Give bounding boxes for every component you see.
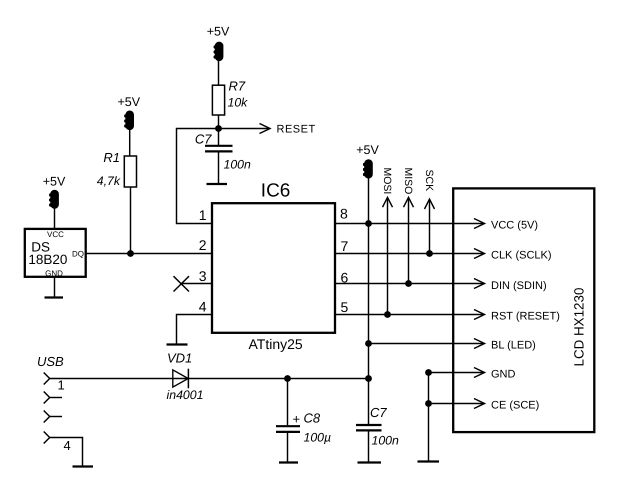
wire GND row (to LCD) (429, 368, 485, 378)
wire pin 4 to ground (177, 315, 214, 345)
svg-text:C8: C8 (304, 411, 321, 426)
wire CLK row (pin 7 to LCD) (335, 249, 485, 259)
diode VD1 (173, 369, 189, 389)
ground (C7 rail) (358, 461, 382, 463)
wire C8 to ground (287, 433, 289, 463)
ground (C8) (279, 461, 298, 463)
svg-text:3: 3 (199, 268, 207, 284)
ground (IC6 pin 4) (167, 343, 188, 345)
resistor R7 (212, 85, 224, 115)
svg-text:8: 8 (340, 206, 348, 222)
junction DQ / R1 (127, 250, 134, 257)
svg-text:+5V: +5V (118, 95, 141, 109)
IC IC6 box (212, 181, 335, 352)
wire R7 to RESET node (218, 115, 220, 145)
svg-text:7: 7 (341, 238, 349, 254)
svg-text:RESET: RESET (277, 124, 316, 136)
svg-text:R1: R1 (103, 150, 120, 165)
power +5V symbol (R7 supply) (207, 25, 230, 62)
svg-text:C7: C7 (370, 405, 387, 420)
svg-text:USB: USB (37, 354, 64, 369)
svg-text:CE (SCE): CE (SCE) (491, 399, 539, 411)
svg-text:ATtiny25: ATtiny25 (249, 336, 303, 352)
svg-text:C7: C7 (195, 132, 212, 147)
wire RESET arrow (219, 124, 271, 134)
junction +5V / BL row (365, 340, 372, 347)
LCD module LCD HX1230 box (453, 188, 594, 432)
net SCK arrow (423, 170, 435, 254)
svg-text:BL (LED): BL (LED) (491, 339, 536, 351)
svg-text:5: 5 (341, 299, 349, 315)
svg-text:VCC: VCC (47, 230, 64, 239)
svg-text:GND: GND (45, 269, 63, 278)
junction +5V / rail (365, 375, 372, 382)
wire BL row (+5V to LCD) (369, 339, 485, 349)
capacitor C7 (reset) (205, 146, 233, 152)
wire RESET node to IC6 pin 1 (177, 129, 219, 224)
svg-text:RST (RESET): RST (RESET) (491, 310, 560, 322)
wire rail to C8 (287, 379, 289, 426)
wire C7 to ground (218, 152, 220, 184)
pin 4 (USB) (44, 432, 50, 444)
ground (LCD) (418, 460, 440, 462)
svg-text:in4001: in4001 (167, 388, 204, 402)
svg-text:SCK: SCK (423, 170, 435, 192)
wire GND of DS18B20 (54, 277, 56, 298)
pin 1 (USB) (44, 373, 50, 385)
svg-text:18B20: 18B20 (28, 252, 67, 267)
wire C7 to ground (368, 431, 370, 463)
svg-text:VD1: VD1 (167, 351, 192, 366)
svg-text:MOSI: MOSI (381, 168, 393, 195)
ground (USB) (73, 465, 94, 467)
svg-text:R7: R7 (229, 79, 246, 94)
svg-text:DIN (SDIN): DIN (SDIN) (491, 280, 547, 292)
net MISO arrow (402, 168, 414, 284)
svg-text:100µ: 100µ (304, 431, 332, 445)
power +5V symbol (LCD/rail supply) (356, 143, 379, 178)
junction SCK / CLK row (426, 250, 433, 257)
svg-text:IC6: IC6 (261, 181, 291, 202)
no-connect X on pin 3 (174, 276, 190, 291)
pin 2 (USB) (44, 392, 62, 404)
junction MISO / DIN row (405, 280, 412, 287)
wire DQ net to IC6 pin 2 (86, 253, 213, 255)
svg-text:1: 1 (199, 207, 207, 223)
junction GND row (425, 369, 432, 376)
capacitor C7 (rail) (356, 425, 382, 430)
wire R1 to DQ net (130, 187, 132, 254)
svg-text:VCC (5V): VCC (5V) (491, 219, 538, 231)
svg-text:100n: 100n (372, 434, 400, 448)
svg-text:+: + (293, 411, 301, 426)
svg-text:MISO: MISO (402, 168, 414, 195)
wire +5V to R7 (218, 61, 220, 85)
svg-text:4,7k: 4,7k (97, 174, 121, 188)
wire CE row (to LCD) (429, 399, 485, 409)
ground (C7 reset) (207, 183, 228, 185)
wire VCC row (pin 8 to LCD) (335, 219, 485, 229)
capacitor C8 (electrolytic) (276, 426, 300, 432)
junction +5V / VCC row (365, 220, 372, 227)
svg-text:2: 2 (199, 237, 207, 253)
svg-text:100n: 100n (224, 158, 252, 172)
svg-text:CLK (SCLK): CLK (SCLK) (491, 249, 552, 261)
svg-text:GND: GND (491, 368, 516, 380)
wire +5V vertical to rail (368, 178, 370, 379)
wire +5V rail (USB pin 1 through VD1 to C8/C7) (50, 378, 369, 380)
svg-text:10k: 10k (228, 96, 249, 110)
junction CE row (425, 400, 432, 407)
power +5V symbol (R1 supply) (118, 95, 141, 130)
resistor R1 (124, 156, 136, 187)
junction rail / C8 (284, 375, 291, 382)
svg-text:DQ: DQ (72, 250, 84, 259)
junction RESET node (215, 125, 222, 132)
ground (DS18B20) (45, 296, 64, 298)
wire RST row (pin 5 to LCD) (335, 310, 485, 320)
svg-text:+5V: +5V (43, 175, 66, 189)
sensor DS18B20 box (25, 229, 86, 277)
svg-text:4: 4 (199, 299, 207, 315)
svg-text:1: 1 (58, 378, 65, 393)
junction MOSI / RST row (384, 311, 391, 318)
svg-text:4: 4 (64, 438, 71, 453)
wire rail to C7 (368, 379, 370, 425)
wire VCC of DS18B20 (54, 209, 56, 230)
net MOSI arrow (381, 168, 393, 315)
wire USB pin 4 to ground (50, 438, 83, 467)
wire DIN row (pin 6 to LCD) (335, 279, 485, 289)
svg-text:+5V: +5V (356, 143, 379, 157)
power +5V symbol (DS18B20 supply) (43, 175, 66, 209)
svg-text:LCD HX1230: LCD HX1230 (572, 288, 587, 367)
pin 3 (USB) (44, 411, 62, 423)
svg-text:+5V: +5V (207, 25, 230, 39)
wire LCD ground vertical (428, 373, 430, 462)
wire pin 3 (181, 283, 213, 285)
wire +5V to R1 (129, 130, 131, 156)
